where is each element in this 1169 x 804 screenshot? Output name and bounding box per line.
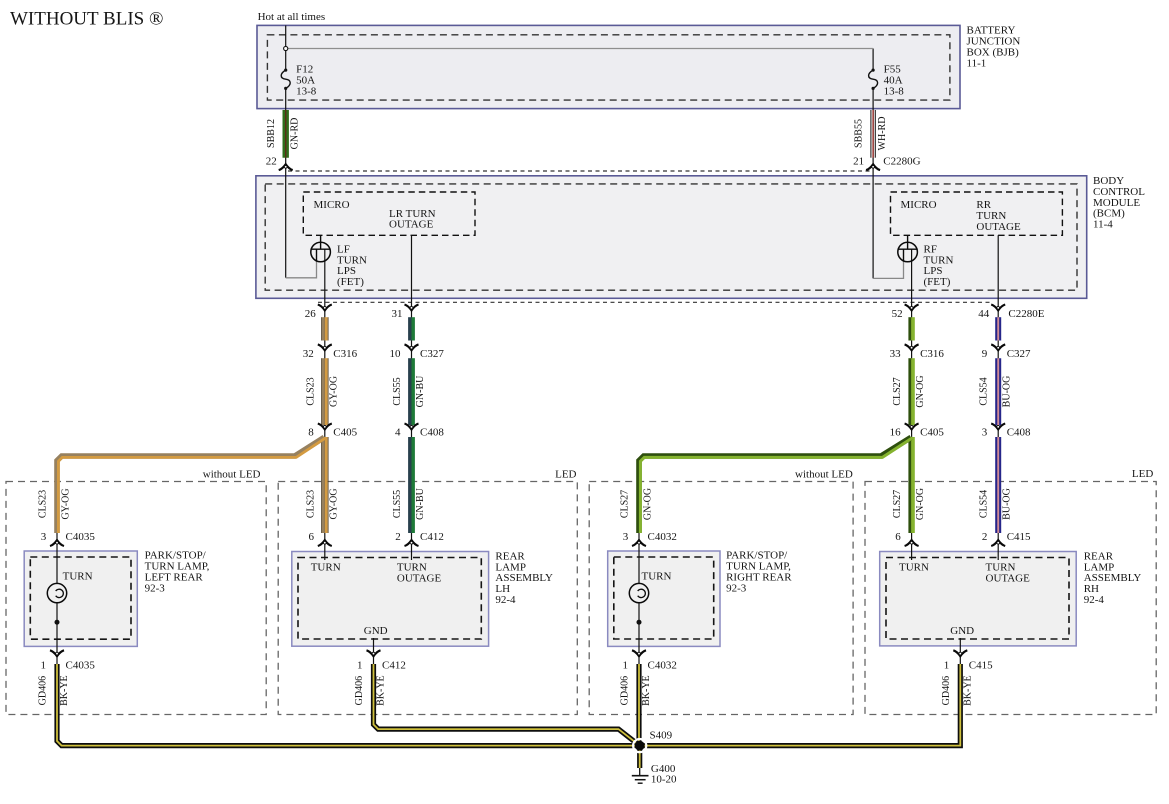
svg-text:BK-YE: BK-YE — [641, 675, 652, 706]
svg-text:CLS54: CLS54 — [979, 377, 990, 405]
svg-text:44: 44 — [978, 308, 990, 320]
svg-text:without LED: without LED — [203, 468, 261, 480]
svg-text:21: 21 — [853, 155, 864, 167]
svg-text:GN-OG: GN-OG — [915, 488, 926, 520]
svg-text:16: 16 — [890, 427, 902, 439]
svg-text:MICRO: MICRO — [314, 199, 350, 211]
svg-text:GD406: GD406 — [38, 676, 49, 705]
svg-text:OUTAGE: OUTAGE — [976, 221, 1021, 233]
svg-text:GY-OG: GY-OG — [328, 488, 339, 519]
svg-text:WITHOUT BLIS ®: WITHOUT BLIS ® — [10, 8, 163, 29]
svg-text:GY-OG: GY-OG — [61, 488, 72, 519]
svg-text:GN-BU: GN-BU — [415, 375, 426, 407]
svg-text:OUTAGE: OUTAGE — [389, 219, 434, 231]
svg-text:CLS54: CLS54 — [979, 490, 990, 518]
svg-text:S409: S409 — [650, 729, 673, 741]
svg-text:CLS55: CLS55 — [392, 490, 403, 518]
svg-text:GND: GND — [950, 625, 974, 637]
svg-text:32: 32 — [303, 348, 314, 360]
svg-text:6: 6 — [309, 531, 315, 543]
svg-text:GN-BU: GN-BU — [415, 487, 426, 519]
svg-text:C2280E: C2280E — [1008, 308, 1044, 320]
svg-text:CLS55: CLS55 — [392, 377, 403, 405]
svg-text:1: 1 — [623, 659, 629, 671]
svg-text:26: 26 — [305, 308, 317, 320]
svg-text:WH-RD: WH-RD — [877, 117, 888, 151]
svg-text:TURN: TURN — [642, 570, 672, 582]
svg-text:2: 2 — [982, 531, 988, 543]
svg-text:92-4: 92-4 — [495, 594, 516, 606]
svg-text:BK-YE: BK-YE — [962, 675, 973, 706]
svg-text:GD406: GD406 — [620, 676, 631, 705]
svg-text:LED: LED — [1132, 468, 1153, 480]
svg-text:3: 3 — [982, 427, 988, 439]
svg-text:6: 6 — [895, 531, 901, 543]
svg-text:4: 4 — [395, 427, 401, 439]
svg-text:GD406: GD406 — [941, 676, 952, 705]
svg-text:8: 8 — [308, 427, 314, 439]
svg-text:52: 52 — [892, 308, 903, 320]
svg-text:C4032: C4032 — [648, 659, 677, 671]
svg-text:SBB12: SBB12 — [266, 119, 277, 148]
svg-text:C4035: C4035 — [66, 531, 96, 543]
svg-text:CLS27: CLS27 — [892, 377, 903, 405]
svg-text:C415: C415 — [969, 659, 993, 671]
svg-text:3: 3 — [41, 531, 47, 543]
svg-text:C412: C412 — [382, 659, 406, 671]
svg-text:10: 10 — [390, 348, 402, 360]
svg-text:LED: LED — [555, 468, 576, 480]
svg-text:C412: C412 — [420, 531, 444, 543]
svg-text:TURN: TURN — [311, 561, 341, 573]
svg-text:(FET): (FET) — [924, 276, 951, 288]
svg-text:1: 1 — [944, 659, 950, 671]
svg-text:C408: C408 — [420, 427, 444, 439]
svg-text:C2280G: C2280G — [883, 155, 920, 167]
svg-text:C316: C316 — [920, 348, 944, 360]
svg-text:GN-RD: GN-RD — [290, 118, 301, 150]
svg-text:92-4: 92-4 — [1084, 594, 1105, 606]
svg-text:13-8: 13-8 — [296, 85, 317, 97]
svg-text:C405: C405 — [920, 427, 944, 439]
svg-text:11-1: 11-1 — [967, 57, 987, 69]
svg-text:3: 3 — [623, 531, 629, 543]
svg-text:CLS27: CLS27 — [892, 490, 903, 518]
svg-text:C408: C408 — [1007, 427, 1031, 439]
svg-text:TURN: TURN — [899, 561, 929, 573]
svg-text:CLS23: CLS23 — [38, 490, 49, 518]
svg-text:33: 33 — [890, 348, 902, 360]
svg-text:BU-OG: BU-OG — [1002, 376, 1013, 408]
svg-text:TURN: TURN — [63, 570, 93, 582]
svg-text:SBB55: SBB55 — [854, 119, 865, 148]
svg-text:C405: C405 — [333, 427, 357, 439]
svg-text:C4032: C4032 — [648, 531, 677, 543]
svg-text:GN-OG: GN-OG — [643, 488, 654, 520]
svg-text:Hot at all times: Hot at all times — [258, 11, 326, 23]
svg-text:31: 31 — [392, 308, 403, 320]
svg-text:CLS27: CLS27 — [620, 490, 631, 518]
svg-text:2: 2 — [395, 531, 401, 543]
svg-text:C327: C327 — [1007, 348, 1031, 360]
svg-text:13-8: 13-8 — [884, 85, 905, 97]
svg-text:C327: C327 — [420, 348, 444, 360]
svg-text:GN-OG: GN-OG — [915, 375, 926, 407]
svg-text:BK-YE: BK-YE — [376, 675, 387, 706]
svg-text:BK-YE: BK-YE — [59, 675, 70, 706]
svg-text:OUTAGE: OUTAGE — [397, 572, 442, 584]
svg-text:GY-OG: GY-OG — [328, 376, 339, 407]
svg-text:22: 22 — [266, 155, 277, 167]
svg-text:(FET): (FET) — [337, 276, 364, 288]
svg-text:1: 1 — [357, 659, 363, 671]
svg-text:C316: C316 — [333, 348, 357, 360]
svg-text:OUTAGE: OUTAGE — [986, 572, 1031, 584]
svg-text:9: 9 — [982, 348, 988, 360]
svg-text:CLS23: CLS23 — [305, 490, 316, 518]
svg-text:MICRO: MICRO — [901, 199, 937, 211]
svg-text:CLS23: CLS23 — [305, 377, 316, 405]
svg-text:10-20: 10-20 — [651, 774, 677, 786]
svg-text:92-3: 92-3 — [145, 582, 166, 594]
svg-text:BU-OG: BU-OG — [1002, 488, 1013, 520]
svg-text:without LED: without LED — [795, 468, 853, 480]
svg-text:C4035: C4035 — [66, 659, 96, 671]
svg-text:GD406: GD406 — [354, 676, 365, 705]
svg-text:C415: C415 — [1007, 531, 1031, 543]
svg-text:1: 1 — [41, 659, 47, 671]
svg-text:GND: GND — [364, 625, 388, 637]
svg-text:11-4: 11-4 — [1093, 219, 1113, 231]
svg-text:92-3: 92-3 — [726, 582, 747, 594]
